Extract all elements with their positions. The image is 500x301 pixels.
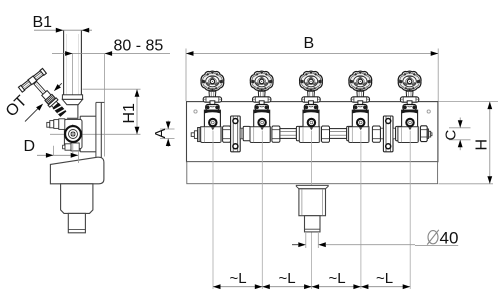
svg-text:A: A bbox=[152, 128, 169, 138]
dimension B bbox=[185, 49, 187, 102]
svg-text:~L: ~L bbox=[230, 270, 247, 287]
valve V2 bbox=[250, 71, 273, 142]
valve body block (side) bbox=[64, 119, 82, 148]
process flange (side) bbox=[61, 184, 93, 214]
plate hole left bbox=[194, 110, 197, 113]
dimension Ø40 bbox=[305, 233, 307, 248]
valve V5 bbox=[398, 71, 421, 142]
valve axis horizontal centerline bbox=[50, 133, 141, 135]
svg-text:~L: ~L bbox=[329, 270, 346, 287]
valve V4 bbox=[349, 71, 372, 142]
process stem (side) bbox=[68, 213, 85, 232]
segment V2-V3: hex nut, nipple pipe, sleeve bbox=[272, 126, 280, 142]
segment V4-V5: hex nut, strip, bolted flange block, strip, sleeve bbox=[372, 126, 380, 142]
mounting plate (edge-on) bbox=[95, 102, 97, 157]
valve V1 bbox=[201, 71, 224, 142]
bonnet smooth section bbox=[42, 91, 51, 100]
process flare bbox=[296, 185, 328, 188]
svg-text:~L: ~L bbox=[376, 270, 393, 287]
process stem bbox=[305, 216, 321, 232]
dimension H1 bbox=[83, 88, 141, 90]
valve spindle (angled) bbox=[34, 82, 46, 95]
svg-text:80 - 85: 80 - 85 bbox=[114, 38, 164, 55]
bonnet collar bbox=[48, 98, 58, 107]
manifold block (side) bbox=[50, 157, 104, 184]
tube neck bbox=[67, 105, 78, 119]
black hex marker bbox=[53, 103, 67, 117]
svg-text:D: D bbox=[24, 138, 36, 155]
dimension H bbox=[439, 101, 499, 103]
impulse tube bbox=[63, 30, 65, 95]
dimension 80 - 85 bbox=[52, 53, 170, 55]
bleed fitting below body bbox=[63, 145, 65, 149]
process block bbox=[299, 189, 326, 216]
valve axis extension lines bbox=[212, 131, 214, 289]
dimension C bbox=[449, 127, 471, 129]
svg-text:H: H bbox=[474, 139, 491, 151]
bonnet ribbed section bbox=[45, 94, 56, 104]
plate hole right bbox=[427, 110, 430, 113]
dimension A (side view) bbox=[160, 128, 175, 130]
big port circle bbox=[65, 126, 81, 142]
svg-text:B1: B1 bbox=[33, 14, 53, 31]
side test port bbox=[47, 122, 50, 127]
valve axis centerline bbox=[72, 124, 74, 155]
T-handle bbox=[18, 68, 46, 92]
svg-text:C: C bbox=[443, 130, 460, 141]
svg-text:40: 40 bbox=[440, 229, 459, 248]
tube centerline bbox=[72, 54, 74, 108]
svg-text:H1: H1 bbox=[121, 103, 138, 124]
manifold bar block bbox=[187, 162, 438, 184]
angled bonnet assembly along 48 deg axis from handle hub bbox=[31, 79, 67, 118]
dimensions ~L bbox=[213, 286, 410, 288]
segment V3-V4: hex nut, nipple pipe, sleeve bbox=[322, 126, 330, 142]
neck bbox=[52, 101, 58, 107]
flange block behind (edge-on) bbox=[80, 115, 96, 117]
valve V3 bbox=[299, 71, 322, 142]
dimension B1 bbox=[34, 29, 92, 31]
mounting plate bbox=[187, 102, 438, 162]
segment V1-V2: hex nut, bolted flange block, strip, sleeve bbox=[223, 126, 231, 142]
svg-text:B: B bbox=[304, 35, 315, 52]
left end inlet spigot bbox=[191, 133, 194, 137]
tube collar bbox=[62, 95, 82, 100]
collar taper bbox=[62, 99, 82, 104]
right end plug bbox=[420, 126, 427, 142]
svg-text:~L: ~L bbox=[279, 270, 296, 287]
